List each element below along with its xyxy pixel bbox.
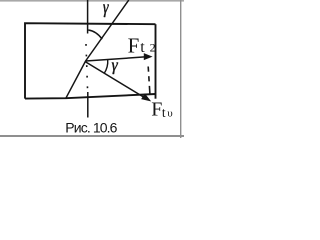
- svg-text:υ: υ: [167, 108, 173, 120]
- svg-text:t: t: [162, 105, 166, 120]
- svg-text:F: F: [128, 33, 140, 57]
- svg-text:γ: γ: [112, 55, 119, 75]
- svg-text:Рис. 10.6: Рис. 10.6: [65, 120, 117, 136]
- svg-text:F: F: [151, 99, 162, 121]
- svg-text:2: 2: [150, 41, 156, 55]
- svg-text:t: t: [140, 39, 145, 56]
- svg-text:γ: γ: [103, 0, 109, 17]
